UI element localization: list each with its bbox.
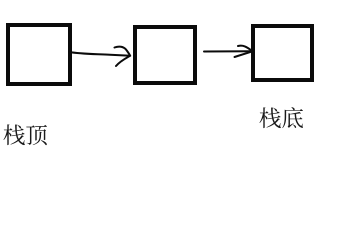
node box 2 (middle) — [135, 27, 195, 83]
arrow 2 (link from box 2 to box 3) — [204, 46, 253, 57]
node box 3 (stack bottom) — [253, 26, 312, 80]
arrow 1 (link from box 1 to box 2) — [70, 47, 131, 66]
node box 1 (stack top) — [8, 25, 70, 84]
label 栈底 (stack bottom) — [259, 107, 303, 128]
label 栈顶 (stack top) — [3, 124, 47, 145]
